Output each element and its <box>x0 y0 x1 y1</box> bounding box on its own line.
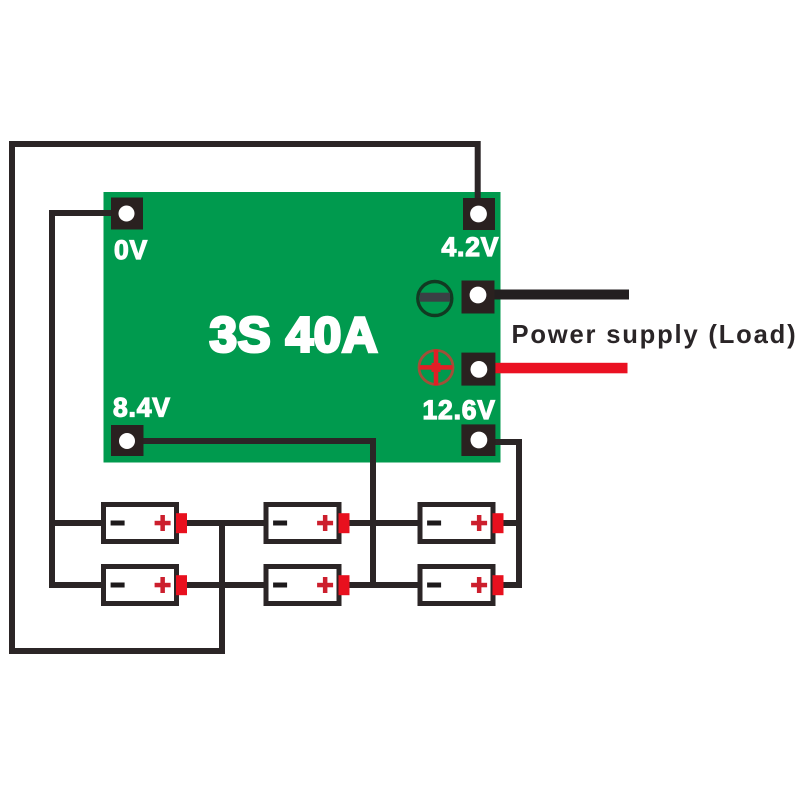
svg-text:0V: 0V <box>114 235 148 265</box>
svg-text:3S 40A: 3S 40A <box>210 308 379 363</box>
svg-text:8.4V: 8.4V <box>113 393 171 423</box>
svg-text:Power supply (Load): Power supply (Load) <box>512 321 798 349</box>
svg-text:4.2V: 4.2V <box>442 232 500 262</box>
svg-text:12.6V: 12.6V <box>423 395 496 425</box>
